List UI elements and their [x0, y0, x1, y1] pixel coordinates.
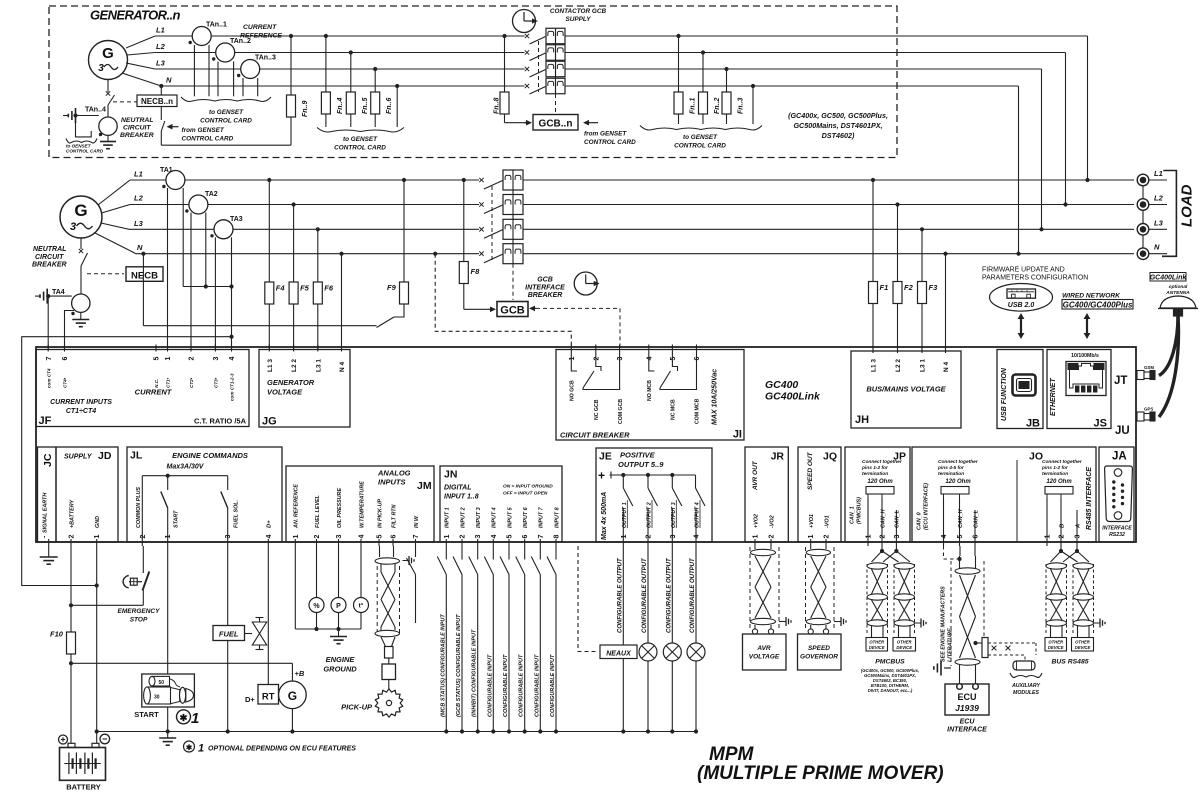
svg-text:from GENSET: from GENSET [584, 131, 627, 138]
svg-text:Fn..1: Fn..1 [690, 98, 697, 114]
svg-text:LOAD: LOAD [1179, 184, 1196, 227]
wire Fn..8 column [505, 36, 527, 123]
svg-text:VOLTAGE: VOLTAGE [749, 654, 780, 661]
svg-text:GC400Link: GC400Link [1150, 275, 1188, 282]
svg-text:Fn..5: Fn..5 [362, 98, 369, 114]
fuse F9 [387, 282, 409, 304]
svg-text:B: B [1059, 524, 1065, 528]
label JA [1112, 451, 1127, 463]
PMCBUS branch [872, 546, 911, 562]
gauge common rail [295, 627, 361, 631]
wire D+ to RT [267, 546, 269, 685]
gauge fuel level [309, 546, 324, 629]
svg-text:A: A [1075, 524, 1081, 529]
svg-text:CAN_0: CAN_0 [917, 512, 923, 530]
earth electrode (main left) [35, 289, 47, 304]
PMCBUS cable 1 [867, 563, 888, 637]
label PMCBUS [875, 659, 905, 666]
label AUXILIARY MODULES [1011, 683, 1040, 696]
fuse F8 tap [462, 178, 466, 182]
label C.T. RATIO /5A [194, 417, 247, 426]
JR pin 2 -VO2 [769, 515, 776, 546]
svg-text:OTHER: OTHER [1048, 640, 1063, 645]
svg-text:N.C.: N.C. [154, 379, 159, 388]
JQ box [798, 447, 841, 542]
contactor GCB pole 1 [479, 170, 523, 190]
x mark neutral breaker (top) [106, 91, 110, 95]
svg-text:L2: L2 [156, 42, 166, 51]
JI pin 4 (NO MCB) [646, 345, 653, 402]
svg-text:MODULES: MODULES [1013, 690, 1039, 696]
svg-text:TAn..3: TAn..3 [255, 55, 276, 62]
svg-text:CONTROL CARD: CONTROL CARD [182, 136, 234, 143]
svg-text:OIL PRESSURE: OIL PRESSURE [337, 488, 343, 528]
JC box [38, 447, 57, 542]
JI pin 3 (COM GCB) [617, 345, 624, 425]
svg-text:D+: D+ [267, 520, 273, 528]
gauge w.temperature [354, 546, 369, 629]
JE rail [610, 472, 696, 479]
svg-text:JF: JF [39, 415, 52, 427]
svg-text:MAX 10A/250Vac: MAX 10A/250Vac [712, 369, 719, 425]
label JQ [823, 451, 837, 463]
svg-text:NEAUX: NEAUX [606, 651, 632, 658]
wire neutral rail [143, 325, 376, 327]
svg-text:AUXILIARY: AUXILIARY [1011, 683, 1040, 689]
svg-text:ANTENNA: ANTENNA [1165, 290, 1190, 296]
JP termination resistor [866, 487, 894, 499]
node F1 tap [871, 178, 875, 182]
node F2 tap [895, 202, 899, 206]
JN pin 5 (INPUT 5) [507, 506, 514, 546]
svg-text:3: 3 [225, 535, 232, 539]
SPEED GOVERNOR box [798, 634, 842, 670]
digital input 8 wire [547, 546, 558, 734]
JM pin 7 (IN W) [413, 515, 420, 546]
fuel valve [245, 618, 267, 650]
JN pin 4 (INPUT 4) [491, 507, 498, 546]
svg-text:GENERATOR: GENERATOR [267, 378, 315, 387]
brace to genset (Fn..4-6) [317, 128, 404, 133]
RS485 cable2 ground [1094, 619, 1106, 628]
label JI [733, 429, 742, 441]
label JO [1029, 451, 1043, 463]
svg-text:JQ: JQ [823, 451, 837, 463]
dashed link breaker-NECB..n [113, 101, 138, 103]
svg-text:DEVICE: DEVICE [1075, 645, 1091, 650]
wire TA3 common [231, 237, 233, 286]
svg-text:ENGINE COMMANDS: ENGINE COMMANDS [172, 451, 248, 460]
JN pin 3 (INPUT 3) [475, 507, 482, 546]
svg-text:3: 3 [894, 535, 901, 539]
svg-text:INPUT 1..8: INPUT 1..8 [444, 494, 479, 501]
JI pin 2 (NC GCB) [593, 345, 600, 421]
svg-text:7: 7 [413, 535, 420, 539]
RJ45 icon [1066, 362, 1106, 396]
svg-text:F6: F6 [324, 284, 334, 293]
svg-text:(ECU INTERFACE): (ECU INTERFACE) [924, 483, 930, 530]
svg-text:GCB: GCB [500, 305, 525, 317]
svg-text:JB: JB [1026, 418, 1040, 430]
svg-text:10/100Mb/s: 10/100Mb/s [1071, 353, 1099, 359]
svg-text:SUPPLY: SUPPLY [64, 454, 93, 461]
wire TAn..3 secondaries [243, 78, 258, 96]
wire F2 column [897, 205, 899, 350]
wire F3 column [921, 229, 923, 349]
DB9 connector [1105, 466, 1133, 522]
JH pin L1 3 [871, 346, 878, 372]
wire fuel to bus [226, 641, 230, 734]
digital input 7 wire [531, 546, 542, 734]
svg-text:BUS RS485: BUS RS485 [1051, 659, 1088, 666]
wire L2 (top) [127, 42, 525, 55]
svg-text:3: 3 [617, 357, 624, 361]
svg-text:3: 3 [98, 63, 104, 74]
label CURRENT REFERENCE [240, 24, 282, 40]
svg-text:NC MCB: NC MCB [671, 399, 677, 420]
JQ pin 2 -VO1 [824, 515, 831, 546]
svg-text:GCB..n: GCB..n [539, 119, 573, 130]
svg-text:NEUTRAL: NEUTRAL [33, 246, 66, 253]
dashed blade link (top contactor) [538, 41, 540, 92]
dashed CAN0 pin4 [944, 546, 962, 561]
dashed contactor to GCB..n [555, 94, 557, 113]
svg-text:Fn..3: Fn..3 [738, 98, 745, 114]
in W stub [407, 546, 416, 623]
dashed COM GCB to NEAUX [578, 546, 598, 652]
RS485 cable 2 [1073, 563, 1094, 637]
svg-text:-VO1: -VO1 [824, 515, 830, 528]
svg-text:GSM: GSM [1144, 365, 1154, 370]
svg-text:1: 1 [165, 357, 172, 361]
x mark neutral breaker (main) [79, 249, 83, 253]
PMCBUS cable 2 [894, 563, 915, 637]
svg-text:JU: JU [1115, 425, 1130, 437]
label JP [893, 451, 906, 463]
fuse Fn..9 [287, 95, 310, 117]
wire CT3 secondary [214, 237, 216, 349]
wire earth junction [46, 294, 72, 298]
svg-text:BATTERY: BATTERY [66, 783, 101, 792]
JM pin 2 (FUEL LEVEL) [314, 495, 321, 546]
wire N column JG [341, 254, 343, 349]
svg-text:CONFIGURABLE OUTPUT: CONFIGURABLE OUTPUT [690, 557, 696, 633]
svg-text:optional: optional [1169, 284, 1188, 290]
svg-text:+VO1: +VO1 [809, 514, 815, 528]
svg-text:F10: F10 [50, 630, 64, 639]
dashed GCB to COM-GCB [529, 306, 620, 349]
svg-text:GC400Link: GC400Link [765, 391, 821, 403]
label SUPPLY JD [64, 450, 112, 462]
svg-text:F2: F2 [904, 283, 914, 292]
JF pin 4 (com CT1-2-3) [229, 345, 236, 402]
JL fuel switch [221, 476, 228, 546]
node Fn..6 tap [373, 67, 377, 71]
svg-text:2: 2 [769, 535, 776, 539]
svg-text:OTHER: OTHER [897, 640, 912, 645]
svg-text:L3 1: L3 1 [920, 359, 927, 372]
JC pin SIGNAL EARTH [42, 493, 49, 546]
pickup stem [382, 647, 396, 690]
svg-text:BREAKER: BREAKER [528, 292, 563, 299]
svg-text:AVR: AVR [756, 645, 771, 652]
digital input 6 wire [516, 546, 527, 734]
svg-text:1: 1 [94, 535, 101, 539]
svg-text:6: 6 [973, 535, 980, 539]
svg-text:2: 2 [140, 535, 147, 539]
node F4 tap [267, 178, 271, 182]
svg-text:OTHER: OTHER [1075, 640, 1090, 645]
fuse Fn..5 [346, 92, 369, 114]
svg-text:3: 3 [336, 535, 343, 539]
node N tap (right group) [751, 84, 755, 88]
ground signal earth [40, 546, 58, 564]
JE switch output 4 [696, 475, 706, 506]
svg-text:RS485 INTERFACE: RS485 INTERFACE [1086, 467, 1093, 530]
svg-text:CIRCUIT: CIRCUIT [123, 125, 151, 132]
JD pin 1 GND [94, 516, 101, 546]
wire Fn..3 column [726, 69, 728, 124]
svg-text:FUEL LEVEL: FUEL LEVEL [315, 495, 321, 528]
digital input 4 wire [484, 546, 495, 734]
generator G (main, 3-phase) [60, 196, 102, 238]
earth electrode (top left) [63, 108, 76, 123]
JR box [745, 447, 788, 542]
svg-text:120 Ohm: 120 Ohm [945, 479, 971, 485]
svg-text:1: 1 [1045, 535, 1052, 539]
svg-text:POSITIVE: POSITIVE [620, 451, 656, 460]
svg-text:INPUTS: INPUTS [378, 478, 406, 487]
JN pin 7 (INPUT 7) [538, 506, 545, 546]
svg-text:1: 1 [808, 535, 815, 539]
svg-text:6: 6 [62, 357, 69, 361]
RS485 branch [1051, 546, 1090, 562]
SPEED shield dashed [806, 547, 835, 630]
svg-text:RT: RT [262, 692, 275, 703]
JB box [997, 350, 1043, 429]
svg-text:✱: ✱ [186, 743, 193, 752]
svg-text:L2 2: L2 2 [895, 359, 902, 372]
svg-text:Fn..9: Fn..9 [302, 101, 309, 117]
svg-text:INPUT 3: INPUT 3 [476, 507, 482, 528]
svg-text:3: 3 [70, 221, 76, 233]
JN pin 8 (INPUT 8) [554, 507, 561, 546]
svg-text:pins 1-2 for: pins 1-2 for [861, 465, 889, 471]
label plus [598, 469, 605, 483]
svg-text:RS232: RS232 [1109, 532, 1125, 538]
svg-text:1: 1 [293, 535, 300, 539]
svg-text:INPUT 1: INPUT 1 [445, 507, 451, 528]
node N tap JG [339, 252, 343, 256]
JO box [912, 447, 1096, 542]
svg-text:ETHERNET: ETHERNET [1050, 378, 1057, 416]
CT TA2 [185, 191, 218, 214]
fuse F10 [50, 630, 76, 655]
output 3 wire [663, 546, 681, 734]
JF box [36, 350, 249, 427]
label JF [39, 415, 52, 427]
svg-text:VOLTAGE: VOLTAGE [267, 388, 303, 397]
label CAN_0 ECU [917, 483, 930, 530]
LOAD terminal L2 [1137, 194, 1167, 211]
label models list [788, 111, 888, 140]
svg-text:TA3: TA3 [230, 216, 243, 223]
node Fn..1 tap [676, 34, 680, 38]
ECU cable [955, 546, 980, 684]
svg-text:4: 4 [941, 535, 948, 539]
svg-text:termination: termination [1042, 471, 1068, 477]
JE box [596, 448, 712, 542]
svg-text:SPEED: SPEED [808, 645, 830, 652]
svg-text:L1 3: L1 3 [267, 359, 274, 372]
svg-text:to GENSET: to GENSET [683, 134, 718, 141]
svg-text:L3: L3 [134, 219, 144, 228]
PMCBUS other device boxes [866, 638, 916, 652]
svg-text:N: N [1154, 243, 1160, 252]
svg-text:com CT4: com CT4 [46, 368, 51, 388]
label EMERGENCY STOP [118, 608, 161, 624]
svg-text:TA2: TA2 [205, 191, 218, 198]
svg-text:INPUT 8: INPUT 8 [554, 507, 560, 528]
fuse F8 [459, 262, 480, 284]
svg-text:CONFIGURABLE INPUT: CONFIGURABLE INPUT [503, 654, 509, 717]
svg-text:5: 5 [377, 535, 384, 539]
node N junction (main) [141, 252, 145, 256]
dashed link breaker-NECB [87, 273, 124, 275]
svg-text:GND: GND [95, 516, 101, 528]
svg-text:CIRCUIT BREAKER: CIRCUIT BREAKER [560, 431, 630, 440]
svg-text:6: 6 [694, 357, 701, 361]
wire earth to JF pin7 [47, 296, 49, 349]
svg-text:STOP: STOP [130, 616, 148, 623]
svg-text:F3: F3 [929, 283, 939, 292]
JE pin 1 (OUTPUT 1) [621, 500, 628, 546]
JD pin 2 +BATTERY [69, 499, 76, 546]
aux modules link [976, 638, 1037, 671]
JL pin 4 D+ [266, 520, 273, 546]
SPEED cable [806, 546, 830, 634]
svg-text:BUS/MAINS VOLTAGE: BUS/MAINS VOLTAGE [866, 385, 946, 394]
JH pin N 4 [943, 346, 950, 372]
JN pin 6 (INPUT 6) [522, 506, 529, 546]
START motor [142, 674, 195, 707]
svg-text:INTERFACE: INTERFACE [947, 727, 987, 734]
svg-text:CURRENT INPUTS: CURRENT INPUTS [50, 399, 112, 406]
wire L1 drop to main [1085, 36, 1089, 182]
wire Fn..5 column [350, 53, 352, 128]
JI relay contact MCB [649, 352, 697, 390]
svg-text:JN: JN [444, 469, 457, 481]
contactor GCB pole 2 [479, 195, 523, 215]
JO CAN termination resistor [941, 487, 969, 499]
svg-text:JA: JA [1112, 451, 1127, 463]
svg-text:3: 3 [1075, 535, 1082, 539]
label JS [1094, 418, 1107, 430]
label ON OFF legend [503, 484, 553, 497]
generator-n section dashed border [49, 6, 897, 158]
svg-text:INTERFACE: INTERFACE [525, 284, 565, 291]
contactor GCB..n pole 4 [525, 78, 565, 94]
svg-text:JE: JE [599, 451, 612, 463]
svg-text:5: 5 [957, 535, 964, 539]
svg-text:CAN_H: CAN_H [958, 509, 964, 528]
svg-text:CT1•: CT1• [166, 377, 171, 388]
svg-text:120 Ohm: 120 Ohm [1046, 479, 1072, 485]
contactor GCB..n pole 3 [525, 61, 565, 77]
ground below TA4 [72, 312, 89, 326]
svg-text:CONFIGURABLE INPUT: CONFIGURABLE INPUT [519, 654, 525, 717]
JM pin 6 (FILT RTN) [391, 504, 398, 546]
label BUS RS485 [1051, 659, 1088, 666]
svg-text:4: 4 [359, 535, 366, 539]
arrow into GCB..n [524, 120, 532, 126]
switch from-genset (top) [161, 121, 165, 145]
dashed actuator (main contactor) [512, 264, 514, 300]
svg-text:2: 2 [460, 535, 467, 539]
LOAD terminal N [1137, 243, 1167, 260]
label CURRENT INPUTS [50, 399, 112, 415]
GC400/GC400Plus box [1062, 300, 1133, 310]
svg-text:L1: L1 [134, 170, 143, 179]
timer clock (GCB interface breaker) [574, 272, 600, 295]
switch neutral breaker (main) [81, 253, 88, 294]
wire L3 (main) [101, 219, 479, 229]
svg-text:CIRCUIT: CIRCUIT [35, 254, 64, 261]
label from GENSET CONTROL CARD (top) [182, 127, 234, 143]
svg-text:(INHIBIT) CONFIGURABLE INPUT: (INHIBIT) CONFIGURABLE INPUT [472, 629, 478, 717]
svg-text:1: 1 [191, 710, 199, 727]
svg-text:COM MCB: COM MCB [695, 398, 701, 424]
svg-text:INPUT 7: INPUT 7 [539, 506, 545, 528]
label PMCBUS devices [861, 668, 919, 693]
NECB..n box [137, 95, 177, 107]
svg-text:INPUT 4: INPUT 4 [492, 507, 498, 528]
svg-text:DIVIT, DANOUT, ecc...): DIVIT, DANOUT, ecc...) [868, 688, 913, 693]
JM pin 1 (AN. REFERENCE) [293, 484, 300, 546]
svg-text:N: N [166, 76, 172, 85]
JR pin 1 +VO2 [753, 514, 760, 546]
label to GENSET CONTROL CARD (Fn..4-6) [334, 136, 386, 152]
svg-text:termination: termination [862, 471, 888, 477]
LOAD terminal L1 [1137, 169, 1167, 186]
pickup wires [375, 546, 400, 647]
contactor GCB pole 3 [479, 219, 523, 239]
wire F8 column [464, 180, 488, 309]
JM pin 5 (IN PICK-UP) [377, 499, 384, 546]
JM pin 4 (W.TEMPERATURE) [359, 481, 366, 546]
GPS connector [1137, 407, 1155, 422]
svg-text:3: 3 [475, 535, 482, 539]
label LOAD [1179, 184, 1196, 227]
svg-text:✱: ✱ [180, 713, 189, 724]
digital input 3 wire [469, 546, 480, 734]
svg-text:L1 3: L1 3 [871, 359, 878, 372]
svg-text:CT1÷CT4: CT1÷CT4 [66, 408, 96, 415]
svg-text:5: 5 [507, 535, 514, 539]
label BATTERY [66, 783, 101, 792]
digital input 5 wire [500, 546, 511, 734]
wire TAn..2 secondaries [218, 62, 234, 97]
svg-text:OFF = INPUT OPEN: OFF = INPUT OPEN [503, 491, 548, 497]
svg-text:N 4: N 4 [339, 362, 346, 373]
node Fn..3 tap [724, 67, 728, 71]
svg-text:PICK-UP: PICK-UP [341, 703, 373, 712]
svg-text:COM GCB: COM GCB [618, 399, 624, 424]
wire GND [95, 546, 99, 743]
svg-text:1: 1 [444, 535, 451, 539]
svg-text:FUEL: FUEL [219, 630, 239, 639]
wire G to bus [290, 709, 294, 734]
